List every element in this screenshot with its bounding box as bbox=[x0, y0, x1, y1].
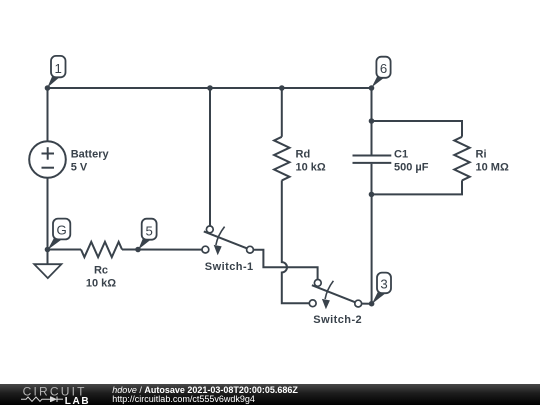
wire Switch-2 output to node 3 bbox=[361, 303, 371, 305]
battery V1 value labels bbox=[71, 148, 110, 173]
svg-text:G: G bbox=[56, 222, 66, 237]
resistor Rc bbox=[81, 242, 122, 257]
battery V1 symbol bbox=[29, 141, 66, 178]
switch SW2 name label bbox=[313, 314, 362, 326]
svg-text:5 V: 5 V bbox=[71, 162, 88, 174]
svg-text:LAB: LAB bbox=[65, 396, 90, 405]
wire battery bottom stub bbox=[47, 178, 49, 250]
junction Rd branch on top bus bbox=[279, 85, 285, 91]
svg-text:1: 1 bbox=[55, 61, 62, 76]
ground symbol bbox=[34, 250, 61, 279]
wire C1 top junction to Ri top bbox=[372, 121, 463, 137]
junction Switch-1 branch on top bus bbox=[207, 85, 213, 91]
footer bar bbox=[0, 384, 540, 405]
switch SW1 name label bbox=[205, 261, 254, 273]
node label 5 bbox=[138, 219, 156, 250]
svg-text:Switch-1: Switch-1 bbox=[205, 261, 254, 273]
wire Rc to Switch-1 left terminal bbox=[122, 249, 202, 251]
resistor Ri labels bbox=[476, 148, 509, 173]
resistor Rc labels bbox=[86, 264, 116, 289]
resistor Ri bbox=[454, 137, 469, 181]
switch SW1 Switch-1 bbox=[202, 226, 253, 255]
node label 6 bbox=[372, 57, 391, 88]
wire top bus from node 1 to node 6 bbox=[48, 87, 372, 89]
resistor Rd bbox=[274, 137, 289, 181]
svg-text:Rd: Rd bbox=[296, 148, 311, 160]
svg-text:10 MΩ: 10 MΩ bbox=[476, 162, 509, 174]
node label 1 bbox=[47, 56, 65, 88]
resistor Rd labels bbox=[296, 148, 326, 173]
wire Switch-1 output to Switch-2 input bbox=[253, 250, 317, 280]
wire top bus to Switch-1 common bbox=[209, 88, 211, 226]
junction node 1 on top bus bbox=[45, 85, 51, 91]
circuitlab logo bbox=[20, 385, 100, 405]
junction node 3 bbox=[369, 301, 375, 307]
wire node 6 down to C1 top junction bbox=[371, 88, 373, 121]
switch SW2 Switch-2 bbox=[309, 280, 361, 310]
svg-text:Battery: Battery bbox=[71, 148, 110, 160]
junction node G bbox=[45, 247, 51, 253]
junction C1 bottom bbox=[369, 192, 375, 198]
svg-text:5: 5 bbox=[146, 223, 153, 238]
wire node 3 up to C1 bottom junction bbox=[371, 194, 373, 303]
junction node 6 on top bus bbox=[369, 85, 375, 91]
svg-text:Rc: Rc bbox=[94, 264, 108, 276]
wire battery top stub bbox=[47, 88, 49, 142]
wire top bus to Rd bbox=[281, 88, 283, 137]
junction C1 top bbox=[369, 118, 375, 124]
svg-text:500 µF: 500 µF bbox=[394, 162, 429, 174]
svg-text:10 kΩ: 10 kΩ bbox=[296, 162, 326, 174]
wire ground node to Rc bbox=[48, 249, 82, 251]
svg-text:10 kΩ: 10 kΩ bbox=[86, 278, 116, 290]
svg-text:Switch-2: Switch-2 bbox=[313, 314, 362, 326]
wire Ri bottom to C1 bottom junction bbox=[372, 180, 463, 194]
svg-text:3: 3 bbox=[380, 277, 387, 292]
footer attribution text bbox=[112, 384, 298, 404]
svg-text:6: 6 bbox=[380, 61, 387, 76]
capacitor C1 labels bbox=[394, 148, 429, 173]
node label 3 bbox=[372, 273, 391, 304]
svg-text:Ri: Ri bbox=[476, 148, 487, 160]
wire Rd to Switch-2 with hop over crossing bbox=[282, 180, 310, 303]
junction node 5 bbox=[135, 247, 141, 253]
svg-text:C1: C1 bbox=[394, 148, 408, 160]
node label G bbox=[48, 219, 71, 250]
capacitor C1 bbox=[353, 121, 392, 194]
